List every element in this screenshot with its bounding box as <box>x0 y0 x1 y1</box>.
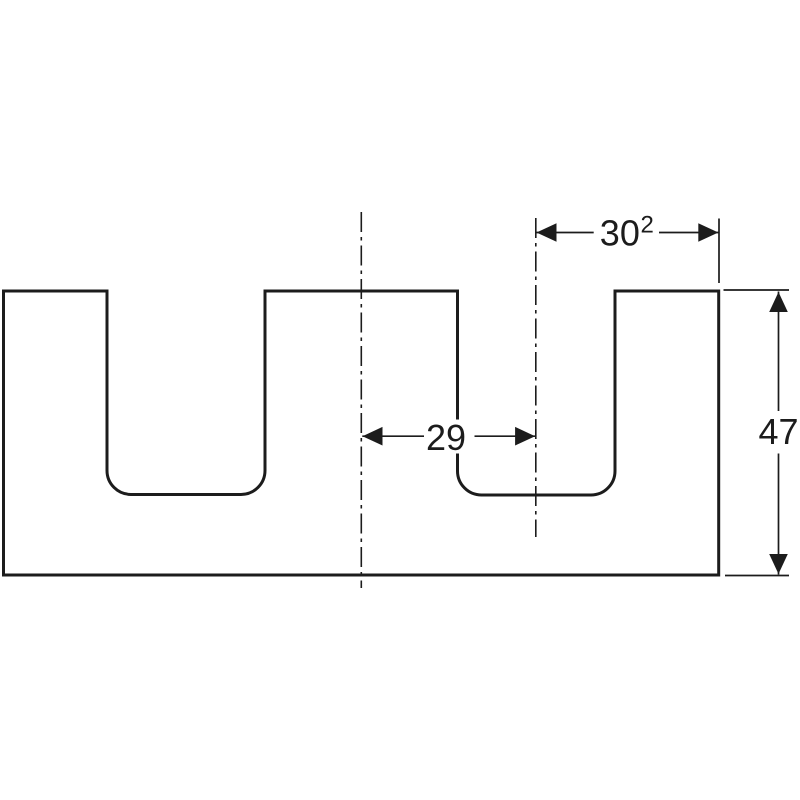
svg-text:30: 30 <box>600 213 640 254</box>
svg-text:2: 2 <box>641 212 654 239</box>
svg-text:29: 29 <box>426 417 466 458</box>
svg-text:47: 47 <box>759 411 799 452</box>
